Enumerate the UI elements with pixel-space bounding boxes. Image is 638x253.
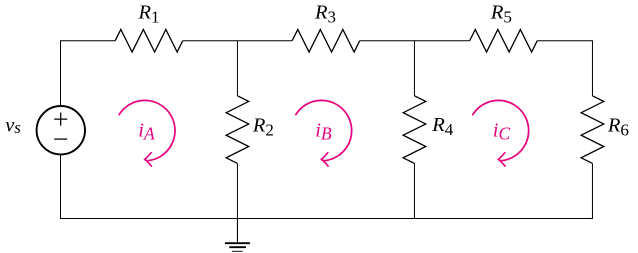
svg-text:R5: R5 [490,2,512,27]
svg-text:vs: vs [5,115,21,138]
mesh current arrow iA [119,100,175,160]
svg-text:iA: iA [138,119,155,143]
wire: R1 to node A [183,40,292,42]
resistor R3 [292,29,360,52]
plus sign [54,113,67,126]
wire: R6 to bottom-right corner, bottom wire back to source [61,154,593,218]
svg-text:R6: R6 [607,114,629,139]
mesh current arrow iC [473,100,529,160]
svg-text:R2: R2 [252,114,274,139]
voltage source vs (circle) [37,106,85,154]
resistor R2 [226,96,249,164]
wire: node B down to R4 [413,41,415,96]
wire: node A down to R2 [236,41,238,96]
wire: R4 to bottom wire [413,163,415,218]
wire: R2 to bottom wire [236,163,238,218]
svg-text:R1: R1 [138,2,160,27]
svg-text:iB: iB [315,119,332,143]
svg-text:R3: R3 [314,2,336,27]
resistor R1 [115,29,183,52]
resistor R6 [581,96,604,164]
ground [225,219,250,252]
svg-text:R4: R4 [431,114,454,139]
svg-text:iC: iC [493,119,511,143]
wire: source top to top-left corner to R1 [61,41,116,106]
resistor R4 [403,96,426,164]
mesh current arrow iB [296,100,352,160]
resistor R5 [470,29,538,52]
wire: R5 to top-right corner down to R6 [537,41,592,96]
wire: R3 to node B [360,40,470,42]
minus sign [54,138,67,140]
